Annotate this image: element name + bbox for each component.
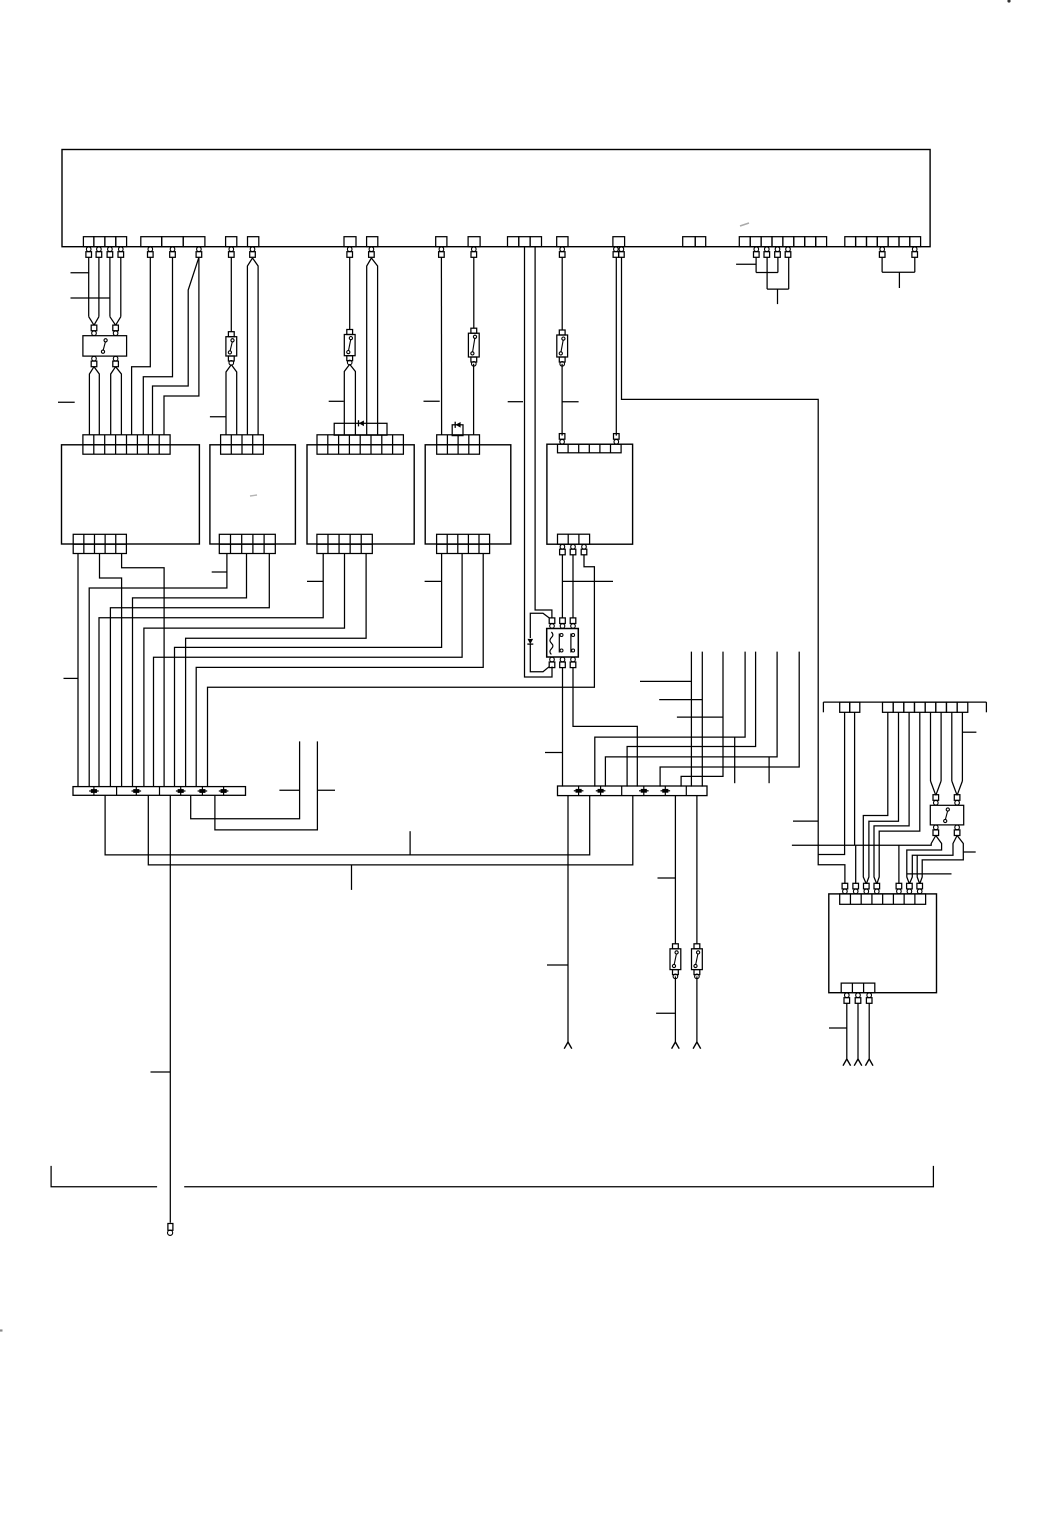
pin J6 top xyxy=(864,883,870,893)
fork end xyxy=(672,1042,680,1049)
connector tab CN-N xyxy=(845,237,856,247)
wire branch xyxy=(898,845,900,884)
pin J6 top xyxy=(907,883,913,893)
diode D1 xyxy=(359,420,364,426)
wire stub xyxy=(677,716,723,718)
wire stub xyxy=(508,401,523,403)
pin at x=252.5 xyxy=(250,247,256,257)
connector J6 bottom xyxy=(841,983,875,993)
connector tab CN-M xyxy=(794,237,805,247)
wire to far right xyxy=(622,257,845,884)
connector tab CN-K xyxy=(613,237,625,247)
pin K2 bottom 1 xyxy=(933,825,939,835)
wire xyxy=(674,796,676,944)
wire xyxy=(696,796,698,944)
pin at x=98.9 xyxy=(96,247,102,257)
wire xyxy=(881,257,883,272)
connector J4 bottom xyxy=(437,534,490,553)
pin J6 top xyxy=(853,883,859,893)
splice xyxy=(661,787,671,796)
connector tab CN-B xyxy=(183,237,205,247)
wire xyxy=(120,257,122,316)
wire stub xyxy=(736,263,756,265)
wire xyxy=(349,257,351,329)
wire stub xyxy=(545,752,563,754)
pin at x=198.9 xyxy=(196,247,202,257)
splice xyxy=(639,787,649,796)
module box A1 xyxy=(62,445,200,544)
pin at x=621.4 xyxy=(619,247,625,257)
pin J6 top xyxy=(896,883,902,893)
connector tab CN-M xyxy=(783,237,794,247)
wire stub xyxy=(212,571,227,573)
wire pair to J3 xyxy=(367,258,378,435)
wire xyxy=(627,652,756,787)
fork end xyxy=(843,1059,851,1066)
wire join xyxy=(767,288,789,290)
wire xyxy=(191,741,300,818)
connector tab CN-N xyxy=(856,237,867,247)
wire xyxy=(863,712,888,884)
pin at x=756.3 xyxy=(754,247,760,257)
wire xyxy=(605,652,777,787)
connector tab CN-P xyxy=(840,702,850,712)
diode D2 xyxy=(455,422,460,428)
connector J4 top xyxy=(437,435,480,454)
wire xyxy=(920,836,964,884)
wire pair converge xyxy=(952,781,963,795)
connector tab CN-F xyxy=(367,237,378,247)
pin at x=441.4 xyxy=(439,247,445,257)
fuse F5 xyxy=(670,944,681,979)
bracket xyxy=(51,1166,157,1187)
wire xyxy=(561,555,563,618)
module box A6 xyxy=(829,894,937,993)
wire xyxy=(164,257,199,435)
wire stub xyxy=(562,580,613,582)
wire xyxy=(846,1003,848,1059)
connector tab CN-M xyxy=(816,237,827,247)
wire xyxy=(105,795,590,855)
wire stub xyxy=(777,289,779,304)
wire pair converge xyxy=(110,317,121,326)
wire stub xyxy=(351,865,353,890)
splice xyxy=(176,787,186,796)
wire stub xyxy=(547,964,568,966)
connector tab CN-B xyxy=(141,237,162,247)
pin at x=777.5 xyxy=(775,247,781,257)
wire xyxy=(877,712,920,884)
connector tab CN-M xyxy=(739,237,750,247)
pin J5-2 xyxy=(614,434,620,444)
pin at x=882.2 xyxy=(879,247,885,257)
pin T1 bottom 1 xyxy=(549,657,555,667)
wire xyxy=(440,257,442,435)
artifact xyxy=(250,495,257,496)
pin K2 bottom 2 xyxy=(954,825,960,835)
wire xyxy=(690,652,692,787)
connector tab CN-G xyxy=(436,237,447,247)
connector tab CN-A xyxy=(83,237,94,247)
wire stub xyxy=(425,580,442,582)
wire xyxy=(186,553,367,786)
pin end xyxy=(168,1224,173,1236)
fork end xyxy=(564,1042,572,1049)
wire stub xyxy=(659,699,702,701)
pin at x=562.2 xyxy=(559,247,565,257)
splice xyxy=(198,787,208,796)
wire stub xyxy=(829,1027,847,1029)
fuse F6 xyxy=(692,944,703,979)
wire pair to J2 xyxy=(226,365,237,435)
wire xyxy=(701,652,703,787)
fork end xyxy=(854,1059,862,1066)
relay T1 xyxy=(547,629,579,658)
connector tab CN-L xyxy=(695,237,706,247)
connector tab CN-P xyxy=(850,702,860,712)
connector tab CN-Q xyxy=(946,702,957,712)
wire stub xyxy=(734,737,736,783)
wire long xyxy=(169,795,171,1222)
wire xyxy=(914,257,916,272)
pin at x=766.8 xyxy=(764,247,770,257)
wire pair converge xyxy=(89,317,99,326)
wire xyxy=(818,712,844,854)
wire pair to J1 xyxy=(89,367,99,435)
connector J3 sub xyxy=(334,423,387,435)
connector J5 top xyxy=(558,444,622,453)
connector J5 bottom xyxy=(558,534,590,544)
wire xyxy=(615,257,617,435)
connector tab CN-Q xyxy=(925,702,936,712)
wire stub xyxy=(409,831,411,855)
wire stub xyxy=(64,677,79,679)
artifact xyxy=(1007,0,1010,3)
wire xyxy=(930,712,932,781)
pin at x=109.9 xyxy=(107,247,113,257)
connector J1 top xyxy=(83,435,170,454)
wire xyxy=(562,668,564,787)
pin J6 top xyxy=(917,883,923,893)
splice xyxy=(219,787,229,796)
main board P1 xyxy=(62,150,930,247)
wire xyxy=(696,976,698,1042)
wire xyxy=(788,257,790,289)
wire xyxy=(961,712,963,781)
connector tab CN-I xyxy=(530,237,541,247)
pin at x=231.3 xyxy=(229,247,235,257)
pin K1 top-left xyxy=(91,325,97,335)
pin T1 top 1 xyxy=(549,618,555,628)
pin J5 bottom 1 xyxy=(560,544,566,554)
wire xyxy=(660,652,799,787)
pin K1 bottom-left xyxy=(91,356,97,366)
wire branch xyxy=(917,855,920,884)
pin T1 bottom 3 xyxy=(570,657,576,667)
wire xyxy=(567,796,569,1042)
wire xyxy=(98,257,100,316)
connector J2 top xyxy=(221,435,264,454)
pin J5 bottom 3 xyxy=(581,544,587,554)
wire stub xyxy=(640,680,691,682)
wire to bus bar xyxy=(208,555,595,787)
pin J5 bottom 2 xyxy=(570,544,576,554)
wire xyxy=(868,1003,870,1059)
pin J6 top xyxy=(842,883,848,893)
wire xyxy=(215,741,318,830)
diode D3 xyxy=(527,639,533,644)
artifact xyxy=(0,1329,3,1331)
connector tab CN-I xyxy=(519,237,530,247)
module box A2 xyxy=(210,445,296,544)
module box A4 xyxy=(425,445,511,544)
connector J1 bottom xyxy=(73,534,126,553)
wire xyxy=(940,712,942,781)
wire pair to J1 xyxy=(111,367,122,435)
connector tab CN-E xyxy=(344,237,356,247)
wire xyxy=(132,257,151,435)
module box A3 xyxy=(307,445,414,544)
wire xyxy=(230,257,232,331)
wire xyxy=(109,257,111,316)
wire stub xyxy=(562,401,578,403)
wire xyxy=(874,712,909,884)
connector J3 top xyxy=(317,435,403,454)
module box A5 xyxy=(547,444,633,544)
connector tab CN-Q xyxy=(883,702,894,712)
connector tab CN-M xyxy=(805,237,816,247)
wire stub xyxy=(962,731,976,733)
connector tab CN-J xyxy=(557,237,568,247)
wire stub xyxy=(907,873,952,875)
bracket xyxy=(184,1166,933,1187)
wire stub xyxy=(307,580,323,582)
fuse F4 xyxy=(557,330,568,366)
wire xyxy=(857,1003,859,1059)
connector tab CN-I xyxy=(508,237,519,247)
connector tab CN-Q xyxy=(957,702,968,712)
wire stub xyxy=(964,851,976,853)
wire pair converge xyxy=(931,781,942,795)
wire xyxy=(856,836,936,884)
fuse F2 xyxy=(344,330,355,365)
connector tab CN-N xyxy=(867,237,878,247)
harness bar B3 xyxy=(823,702,986,712)
connector tab CN-M xyxy=(761,237,772,247)
pin at x=349.7 xyxy=(347,247,353,257)
wire xyxy=(572,555,574,618)
pin at x=371.4 xyxy=(369,247,375,257)
fuse F1 xyxy=(226,332,237,365)
wire loop xyxy=(530,644,549,672)
splice xyxy=(574,787,584,796)
pin T1 top 2 xyxy=(560,618,566,628)
wire xyxy=(144,553,345,786)
wire xyxy=(77,553,79,786)
connector tab CN-B xyxy=(162,237,184,247)
connector tab CN-N xyxy=(888,237,899,247)
pin J6 bottom xyxy=(866,993,872,1003)
connector tab CN-M xyxy=(772,237,783,247)
wire stub xyxy=(71,297,111,299)
wire xyxy=(561,364,563,436)
wire xyxy=(99,553,323,786)
pin at x=88.7 xyxy=(86,247,92,257)
pin J5-1 xyxy=(559,434,565,444)
pin at x=473.8 xyxy=(471,247,477,257)
wire xyxy=(143,257,172,435)
wire xyxy=(148,795,633,865)
wire xyxy=(535,247,552,618)
artifact xyxy=(740,223,749,226)
fuse F3 xyxy=(468,328,479,366)
wire xyxy=(175,553,442,786)
wire xyxy=(573,668,637,787)
pin at x=914.7 xyxy=(912,247,918,257)
connector tab CN-M xyxy=(750,237,761,247)
connector tab CN-N xyxy=(910,237,921,247)
wire loop xyxy=(530,613,549,638)
wire stub xyxy=(279,789,299,791)
bus bar B1 xyxy=(73,787,246,796)
pin at x=788 xyxy=(785,247,791,257)
connector tab CN-Q xyxy=(904,702,915,712)
wire xyxy=(473,257,475,328)
connector tab CN-Q xyxy=(914,702,925,712)
wire xyxy=(88,257,90,316)
wire xyxy=(110,553,269,786)
pin T1 bottom 2 xyxy=(560,657,566,667)
pin J6 bottom xyxy=(844,993,850,1003)
connector tab CN-C xyxy=(226,237,237,247)
connector J2 bottom xyxy=(219,534,275,553)
connector tab CN-L xyxy=(683,237,696,247)
wire xyxy=(907,836,942,884)
wire join xyxy=(882,271,915,273)
wire xyxy=(196,553,483,786)
wire stub xyxy=(58,401,75,403)
wire xyxy=(777,257,779,272)
pin at x=172.5 xyxy=(170,247,176,257)
wire xyxy=(154,553,463,786)
pin T1 top 3 xyxy=(570,618,576,628)
wire stub xyxy=(317,789,335,791)
connector J4 sub xyxy=(452,425,463,436)
pin at x=150.3 xyxy=(148,247,154,257)
wire stub xyxy=(898,272,900,288)
connector tab CN-D xyxy=(248,237,259,247)
pin at x=120.8 xyxy=(118,247,124,257)
pin K2 top 2 xyxy=(954,795,960,805)
wire xyxy=(122,553,165,786)
pin K1 bottom-right xyxy=(113,356,119,366)
connector tab CN-A xyxy=(94,237,105,247)
connector tab CN-Q xyxy=(893,702,904,712)
splice xyxy=(132,787,142,796)
connector J3 bottom xyxy=(317,534,372,553)
wire xyxy=(153,257,199,435)
connector tab CN-Q xyxy=(936,702,947,712)
wire xyxy=(89,553,227,786)
wire xyxy=(792,712,855,845)
wire pair to J2 xyxy=(247,258,258,435)
wire stub xyxy=(329,400,344,402)
splice xyxy=(89,787,99,796)
wire pair to J3 xyxy=(344,364,355,435)
pin J6 bottom xyxy=(855,993,861,1003)
connector tab CN-A xyxy=(105,237,116,247)
wire xyxy=(766,257,768,289)
wire stub xyxy=(656,1012,675,1014)
fork end xyxy=(693,1042,701,1049)
wire xyxy=(561,257,563,330)
wire xyxy=(681,652,723,787)
wire xyxy=(951,712,953,781)
connector tab CN-H xyxy=(468,237,480,247)
fork end xyxy=(865,1059,873,1066)
wire xyxy=(525,247,553,677)
wire xyxy=(595,652,745,787)
wire xyxy=(755,257,757,272)
wire stub xyxy=(71,272,90,274)
connector J6 top xyxy=(840,894,926,904)
wire stub xyxy=(768,757,770,783)
splice xyxy=(596,787,606,796)
connector tab CN-N xyxy=(899,237,910,247)
pin J6 top xyxy=(874,883,880,893)
pin K2 top 1 xyxy=(933,795,939,805)
wire stub xyxy=(658,877,676,879)
wire xyxy=(100,553,122,786)
pin K1 top-right xyxy=(113,325,119,335)
bus bar B2 xyxy=(558,786,708,796)
wire stub xyxy=(424,400,440,402)
wire stub xyxy=(793,820,818,822)
relay K2 xyxy=(930,805,963,825)
wire xyxy=(133,553,247,786)
wire stub xyxy=(151,1071,171,1073)
wire xyxy=(674,976,676,1042)
connector tab CN-N xyxy=(877,237,888,247)
wire stub xyxy=(210,416,226,418)
wire xyxy=(909,836,957,884)
wire xyxy=(473,364,475,435)
wire xyxy=(866,712,898,884)
wire join xyxy=(756,272,778,274)
pin at x=615.9 xyxy=(613,247,619,257)
connector tab CN-A xyxy=(116,237,127,247)
relay K1 xyxy=(83,336,127,356)
